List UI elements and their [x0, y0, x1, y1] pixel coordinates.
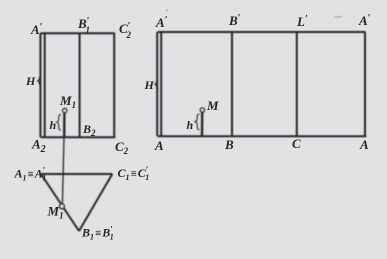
svg-text:h: h [50, 118, 57, 132]
left rectangle left edge inner line [44, 33, 46, 137]
right rectangle left edge (double line) [156, 32, 158, 136]
svg-text:H: H [25, 74, 36, 88]
faint scan mark near top-right A' [335, 16, 343, 19]
svg-text:B′: B′ [228, 13, 241, 28]
svg-text:B′1: B′1 [77, 16, 90, 35]
projection connector line from B2 down to triangle M1 [62, 137, 64, 204]
svg-text:A: A [154, 138, 164, 153]
right rectangle right edge [364, 32, 366, 136]
svg-text:M: M [206, 98, 219, 113]
left rectangle top edge A'-C'2 [41, 32, 116, 34]
right rectangle interior vertical edge C [296, 32, 298, 136]
segment h below M (heavy) [201, 112, 204, 136]
svg-text:A: A [359, 137, 369, 152]
right rectangle interior vertical edge B [231, 32, 233, 136]
faint scan speck above left A' of right figure [166, 9, 168, 11]
svg-text:C′2: C′2 [119, 21, 131, 40]
point M1 circle (top view) [60, 204, 65, 209]
right rectangle left edge inner line [160, 32, 162, 136]
svg-text:L′: L′ [296, 14, 308, 29]
svg-text:h: h [187, 118, 194, 132]
svg-text:B2: B2 [82, 122, 96, 138]
left rectangle left edge (double line, edge A) [39, 33, 41, 137]
svg-text:B1≡B′1: B1≡B′1 [81, 225, 114, 242]
point M1 circle (front view) [63, 109, 67, 113]
left rectangle bottom edge A2-C2 [41, 136, 116, 138]
svg-text:M1: M1 [59, 93, 76, 110]
brace for h (left figure) [57, 114, 61, 130]
brace for H (right figure) [155, 80, 159, 89]
svg-text:A2: A2 [31, 137, 46, 156]
svg-text:A′: A′ [155, 15, 168, 30]
right rectangle bottom edge [158, 135, 367, 137]
left rectangle interior vertical edge B'1-B2 [79, 33, 81, 137]
brace for H (left figure) [38, 76, 42, 85]
triangle right edge C1-B1 [79, 174, 112, 231]
triangle top edge A1-C1 [41, 173, 112, 175]
svg-text:C1≡C′1: C1≡C′1 [118, 165, 150, 182]
svg-text:A1≡A′1: A1≡A′1 [14, 166, 47, 183]
svg-text:C: C [292, 136, 301, 151]
svg-text:H: H [144, 78, 155, 92]
right rectangle top edge [158, 31, 366, 33]
brace for h (right figure) [195, 114, 199, 130]
svg-text:B: B [224, 137, 234, 152]
triangle left edge A1-B1 [41, 174, 79, 231]
segment h from M1 down to base (heavy) [63, 113, 66, 137]
svg-text:A′: A′ [358, 13, 371, 28]
point M circle (development) [200, 108, 204, 112]
left rectangle right edge C'2-C2 [113, 33, 115, 137]
svg-text:C2: C2 [115, 139, 129, 156]
